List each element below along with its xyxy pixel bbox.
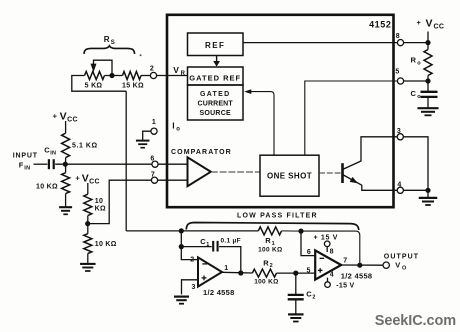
svg-text:o: o xyxy=(417,60,421,66)
wire node A down xyxy=(180,231,182,247)
wire pot to 15K xyxy=(105,75,123,77)
svg-text:5: 5 xyxy=(306,268,310,275)
wire REF to pin 8 xyxy=(243,42,397,44)
svg-text:COMPARATOR: COMPARATOR xyxy=(171,149,232,156)
label 100 K ohm (R2) xyxy=(254,278,278,285)
REF block xyxy=(188,33,244,56)
transistor Q1 xyxy=(343,161,362,185)
svg-text:3: 3 xyxy=(191,284,195,291)
wire divider to pin 7 xyxy=(88,180,152,223)
wire op-amp 1 output xyxy=(222,271,252,274)
svg-text:F: F xyxy=(19,161,24,170)
ground (divider) xyxy=(80,254,96,272)
svg-text:S: S xyxy=(111,40,115,46)
svg-text:2: 2 xyxy=(312,294,315,300)
wire pin 4 to ground xyxy=(403,189,428,191)
node D (C1 feedback) xyxy=(238,270,243,275)
wire pin 6 to comparator xyxy=(158,163,187,165)
label Io xyxy=(172,121,180,133)
svg-text:5 KΩ: 5 KΩ xyxy=(85,83,103,90)
ground (10K bias) xyxy=(59,194,72,215)
label 1/2 4558 (op-amp 1) xyxy=(203,288,235,297)
svg-text:+ 15 V: + 15 V xyxy=(314,234,339,241)
svg-text:CURRENT: CURRENT xyxy=(198,101,234,108)
svg-text:-15 V: -15 V xyxy=(336,282,354,289)
pin 2 xyxy=(150,66,157,79)
capacitor Co xyxy=(421,92,438,108)
svg-text:CC: CC xyxy=(67,117,78,124)
resistor R1 xyxy=(258,227,281,235)
label 10 K ohm (lower) xyxy=(95,241,117,248)
pin 7 xyxy=(151,172,158,184)
svg-text:4: 4 xyxy=(397,181,401,188)
pin 5 xyxy=(395,69,403,85)
svg-text:4: 4 xyxy=(330,272,334,279)
resistor 10K divider lower xyxy=(84,234,92,254)
ONE SHOT block xyxy=(260,155,319,196)
node E (C2 tap) xyxy=(293,271,298,276)
wire pin 2 to GATED REF xyxy=(157,75,188,77)
svg-text:CC: CC xyxy=(89,179,100,186)
svg-text:V: V xyxy=(60,111,67,123)
svg-text:SOURCE: SOURCE xyxy=(199,110,231,117)
brace low pass filter xyxy=(186,223,358,231)
pin label 2 (op-amp 1) xyxy=(190,256,194,263)
svg-text:4152: 4152 xyxy=(369,19,391,29)
svg-text:GATED: GATED xyxy=(200,91,230,98)
wire node A to R1 xyxy=(181,230,258,232)
svg-text:R: R xyxy=(411,56,417,65)
svg-text:100 KΩ: 100 KΩ xyxy=(258,247,282,254)
capacitor C2 xyxy=(288,273,304,313)
pin 1 xyxy=(151,119,157,134)
IC U1 4152 outline xyxy=(167,15,394,207)
label 15 K ohm xyxy=(122,83,144,90)
op-amp U2b xyxy=(315,250,341,279)
resistor Ro xyxy=(424,43,432,76)
label VR xyxy=(173,65,185,77)
brace Rs xyxy=(84,46,135,54)
node Vcc junction xyxy=(425,40,430,45)
svg-text:6: 6 xyxy=(150,155,154,162)
ground (C2) xyxy=(288,314,304,321)
svg-text:OUTPUT: OUTPUT xyxy=(384,253,419,260)
svg-text:1: 1 xyxy=(152,119,156,126)
svg-text:R: R xyxy=(265,236,271,245)
label 5 K ohm xyxy=(85,83,103,90)
svg-text:1/2 4558: 1/2 4558 xyxy=(341,272,373,281)
svg-text:ONE SHOT: ONE SHOT xyxy=(267,172,312,181)
pin 8 xyxy=(396,33,404,46)
arrow REF to GATED REF xyxy=(213,56,220,67)
node Cin junction xyxy=(63,162,68,167)
resistor 10K divider upper xyxy=(84,194,92,215)
wire R1 to node B xyxy=(282,230,302,232)
label Cin xyxy=(44,145,56,156)
node pot/15K junction xyxy=(109,73,114,78)
svg-text:1: 1 xyxy=(206,242,209,248)
wire Rs drop to node A xyxy=(126,230,181,232)
svg-text:LOW PASS FILTER: LOW PASS FILTER xyxy=(237,212,318,219)
pin 3 xyxy=(397,128,404,140)
wire pin 3 to pin 4 (external) xyxy=(403,137,428,191)
capacitor C1 xyxy=(181,241,241,271)
wire Cin to pin 6 xyxy=(55,163,152,165)
wire node B to op-amp 2 pin 6 xyxy=(301,231,315,256)
label COMPARATOR xyxy=(171,149,232,156)
svg-text:5: 5 xyxy=(395,69,399,76)
svg-text:R: R xyxy=(181,71,186,77)
svg-text:1/2 4558: 1/2 4558 xyxy=(203,288,235,297)
pin label 6 (op-amp 2) xyxy=(307,249,311,256)
wire one shot to transistor base xyxy=(319,172,341,174)
svg-text:SeekIC.com: SeekIC.com xyxy=(375,313,456,329)
svg-text:C: C xyxy=(411,89,417,98)
node pins 3-4 junction xyxy=(425,188,430,193)
GATED CURRENT SOURCE block xyxy=(188,85,244,120)
svg-text:8: 8 xyxy=(330,248,334,255)
svg-text:o: o xyxy=(176,126,180,132)
wire collector to pin 3 xyxy=(361,137,397,162)
op-amp U2a xyxy=(198,257,222,286)
svg-text:O: O xyxy=(402,266,407,272)
label OUTPUT xyxy=(384,253,419,260)
label C2 xyxy=(306,289,315,300)
wire 15K to pin 2 xyxy=(141,75,150,77)
svg-text:I: I xyxy=(172,121,175,131)
label Ro xyxy=(411,56,422,67)
node C (C1 tap) xyxy=(179,244,184,249)
svg-text:10 KΩ: 10 KΩ xyxy=(95,241,117,248)
pin label 3 (op-amp 1) xyxy=(191,284,195,291)
label 5.1 K ohm xyxy=(72,142,98,149)
svg-text:7: 7 xyxy=(343,258,347,265)
svg-text:GATED REF: GATED REF xyxy=(189,74,241,83)
label 10 K ohm (upper) xyxy=(95,198,106,213)
pin label 8 (op-amp 2) xyxy=(330,248,334,255)
svg-text:8: 8 xyxy=(396,33,400,40)
watermark SeekIC.com xyxy=(375,313,456,329)
wire pin 5 to one shot xyxy=(305,81,398,155)
GATED REF block xyxy=(188,67,244,85)
node F (output junction) xyxy=(357,263,362,268)
svg-text:2: 2 xyxy=(150,66,154,73)
svg-text:C: C xyxy=(306,289,312,298)
label 4152 xyxy=(369,19,391,29)
svg-text:+: + xyxy=(417,18,422,27)
resistor 15K xyxy=(123,72,142,80)
power +Vcc (5.1K) xyxy=(53,111,78,134)
wire node C to op-amp 1 inverting input xyxy=(181,247,198,260)
op-amp comparator xyxy=(188,157,211,186)
label 0.1 uF xyxy=(221,237,241,244)
node divider junction xyxy=(85,221,90,226)
node Ro/Co junction xyxy=(425,76,430,92)
svg-text:2: 2 xyxy=(270,263,273,269)
power +Vcc (top right) xyxy=(417,17,445,42)
svg-text:0.1 µF: 0.1 µF xyxy=(221,237,241,244)
wire pin 1 to ground xyxy=(143,131,151,140)
wire input to Cin xyxy=(34,163,48,165)
label LOW PASS FILTER xyxy=(237,212,318,219)
svg-text:1: 1 xyxy=(224,265,228,272)
potentiometer 5K xyxy=(85,72,105,80)
wire Rs drop (vertical) xyxy=(125,91,127,231)
svg-text:10: 10 xyxy=(95,198,103,205)
svg-text:+: + xyxy=(53,111,58,120)
svg-text:V: V xyxy=(395,261,400,270)
svg-text:V: V xyxy=(426,17,433,29)
wire op-amp 2 output xyxy=(341,264,383,266)
wire feedback node B to output xyxy=(301,231,360,265)
ink speck xyxy=(140,54,142,56)
wire emitter to pin 4 xyxy=(362,185,397,190)
svg-text:3: 3 xyxy=(397,128,401,135)
svg-text:15 KΩ: 15 KΩ xyxy=(122,83,144,90)
wire comparator to one shot xyxy=(211,171,260,173)
pin label 5 (op-amp 2) xyxy=(306,268,310,275)
label R1 xyxy=(265,236,275,247)
svg-text:100 KΩ: 100 KΩ xyxy=(254,278,278,285)
label 100 K ohm (R1) xyxy=(258,247,282,254)
resistor R2 xyxy=(252,269,276,277)
resistor 5.1K xyxy=(62,133,70,164)
label Rs xyxy=(104,35,115,46)
power +Vcc (divider) xyxy=(75,173,99,195)
pin label 4 (op-amp 2) xyxy=(330,272,334,279)
terminal OUTPUT xyxy=(383,262,389,268)
svg-text:V: V xyxy=(82,173,89,185)
ground (pin 1) xyxy=(136,141,150,148)
svg-text:+: + xyxy=(75,174,80,183)
resistor 10K bias lower xyxy=(62,164,70,193)
pin 4 xyxy=(397,181,403,193)
svg-text:R: R xyxy=(263,258,269,267)
wire divider xyxy=(87,216,89,234)
svg-text:R: R xyxy=(104,35,110,44)
node A xyxy=(179,228,184,233)
power +15V (op-amp 2) xyxy=(314,234,339,252)
svg-text:o: o xyxy=(417,94,421,100)
wire op-amp 1 noninverting to ground xyxy=(182,280,199,295)
power -15V (op-amp 2) xyxy=(325,278,355,290)
svg-text:10 KΩ: 10 KΩ xyxy=(36,183,58,190)
wire R2 to op-amp 2 xyxy=(277,272,316,274)
pot wiper arrow xyxy=(91,60,113,75)
label R2 xyxy=(263,258,273,269)
svg-text:V: V xyxy=(173,65,179,75)
svg-text:CC: CC xyxy=(434,23,445,30)
wire pin 8 to Vcc node xyxy=(404,42,428,44)
node B xyxy=(298,229,303,234)
svg-text:5.1 KΩ: 5.1 KΩ xyxy=(72,142,98,149)
pin 6 xyxy=(150,155,158,167)
wire pot left leg xyxy=(72,76,126,92)
svg-text:REF: REF xyxy=(205,41,226,50)
ground (op-amp 1) xyxy=(174,297,189,304)
label 1/2 4558 (op-amp 2) xyxy=(341,272,373,281)
label Co xyxy=(411,89,422,100)
svg-text:INPUT: INPUT xyxy=(13,153,38,160)
svg-text:2: 2 xyxy=(190,256,194,263)
label C1 xyxy=(200,237,209,248)
svg-text:IN: IN xyxy=(50,150,56,156)
label Fin xyxy=(19,161,31,172)
svg-text:IN: IN xyxy=(24,166,30,172)
wire one shot to gated current source xyxy=(244,89,274,155)
label Vo xyxy=(395,261,407,272)
svg-text:6: 6 xyxy=(307,249,311,256)
pin label 1 (op-amp 1) xyxy=(224,265,228,272)
wire pin 7 to comparator xyxy=(158,179,188,181)
wire pin 5 to Co node xyxy=(404,80,428,82)
label INPUT xyxy=(13,153,38,160)
pin label 7 (op-amp 2) xyxy=(343,258,347,265)
label 10 K ohm (bias) xyxy=(36,183,58,190)
ground (pins 3-4) xyxy=(419,190,438,205)
svg-text:7: 7 xyxy=(151,172,155,179)
svg-text:KΩ: KΩ xyxy=(95,206,106,213)
capacitor Cin xyxy=(49,159,54,169)
ground (Co) xyxy=(418,108,439,115)
